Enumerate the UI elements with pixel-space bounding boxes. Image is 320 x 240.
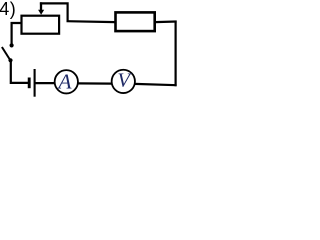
svg-text:A: A: [56, 69, 72, 93]
svg-text:4): 4): [0, 0, 16, 19]
